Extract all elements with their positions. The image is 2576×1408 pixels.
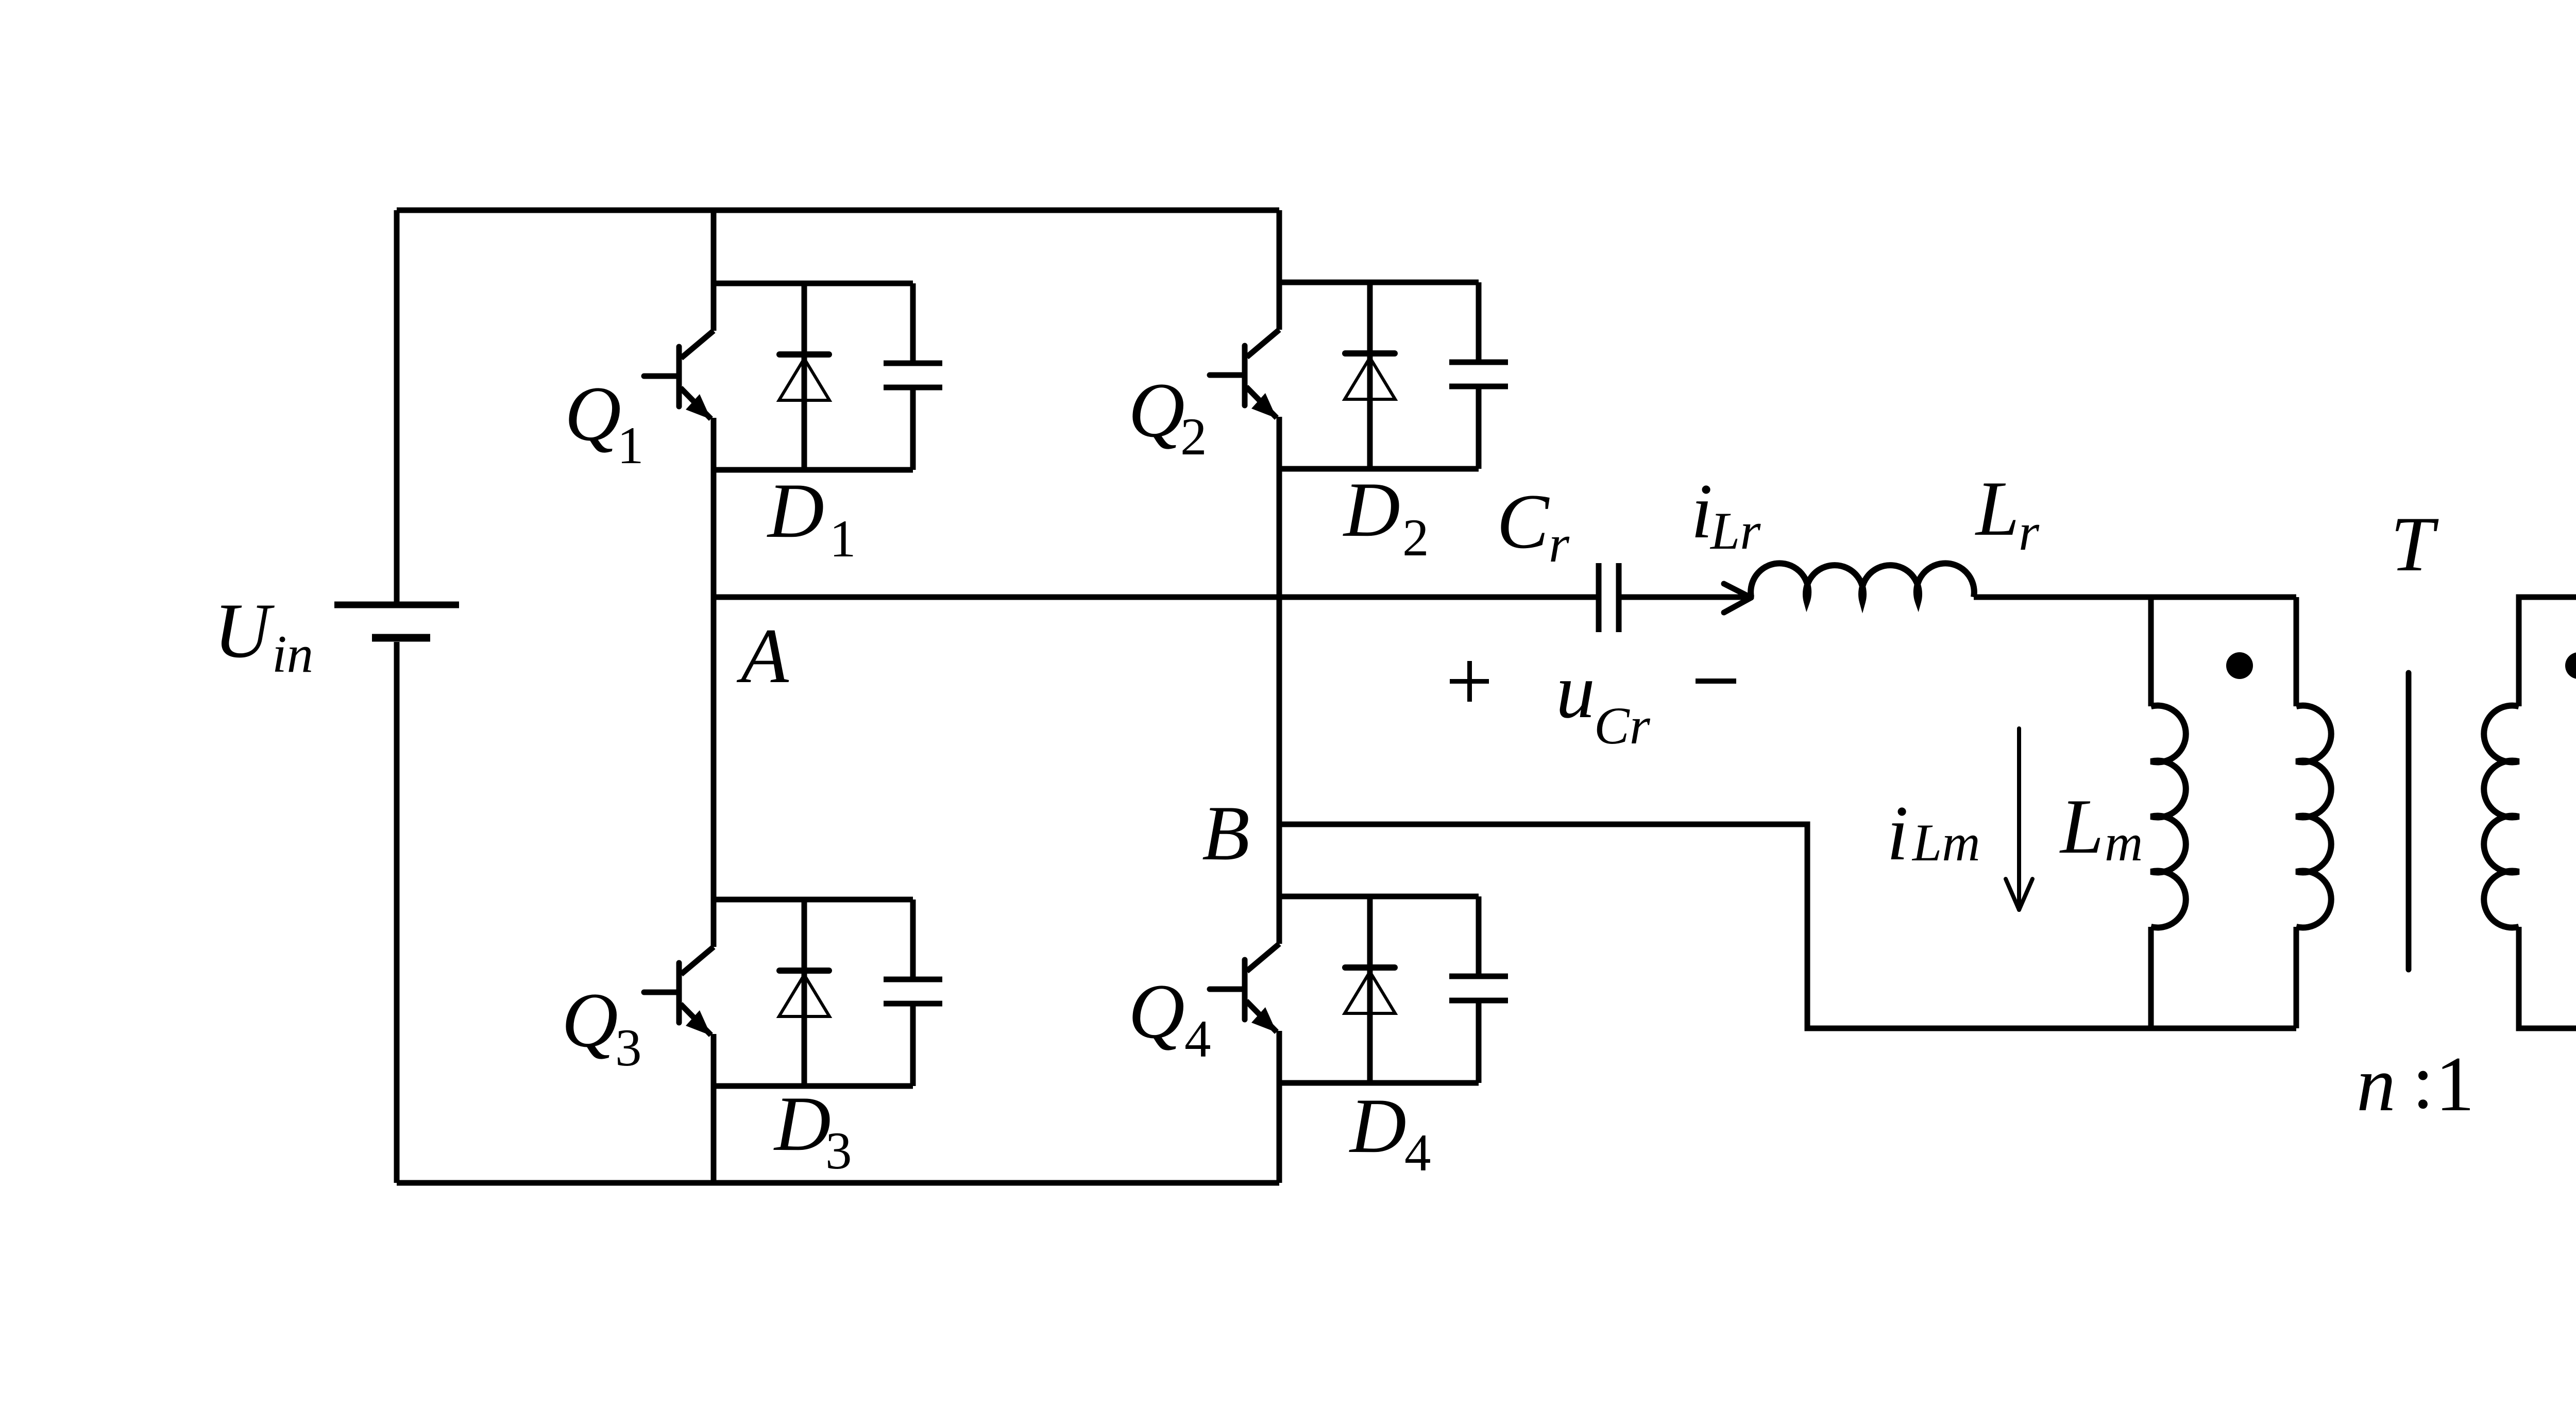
svg-text::: : <box>2412 1038 2434 1125</box>
svg-text:D: D <box>773 1080 831 1167</box>
svg-text:r: r <box>2019 503 2040 562</box>
svg-text:i: i <box>1887 790 1908 876</box>
label minus uCr <box>1696 678 1736 684</box>
switch cell Q1 <box>644 283 942 470</box>
svg-text:B: B <box>1202 790 1250 876</box>
svg-text:3: 3 <box>825 1122 852 1180</box>
svg-text:D: D <box>1349 1082 1406 1169</box>
wire left leg lower <box>711 1034 717 1183</box>
svg-text:1: 1 <box>829 510 856 568</box>
svg-text:4: 4 <box>1404 1124 1431 1182</box>
capacitor of Q3 <box>884 900 942 1086</box>
svg-text:in: in <box>272 625 313 684</box>
capacitor of Q1 <box>884 283 942 470</box>
svg-text:r: r <box>1549 515 1570 573</box>
transformer T secondary winding <box>2484 706 2519 928</box>
wire right leg lower <box>1277 1031 1282 1183</box>
wire secondary bottom <box>2519 927 2576 1028</box>
wire left leg upper <box>711 210 717 331</box>
transformer T primary winding <box>2296 706 2331 928</box>
arrow iLr <box>1724 584 1751 613</box>
svg-text:Q: Q <box>565 370 621 457</box>
inductor Lr <box>1751 563 1974 602</box>
dot primary polarity <box>2226 652 2253 679</box>
svg-text:n: n <box>2357 1041 2396 1127</box>
arrow iLm <box>2006 728 2032 910</box>
svg-text:i: i <box>1691 468 1713 554</box>
wire Lr to transformer <box>1974 595 2296 600</box>
wire primary stub bottom <box>2294 927 2299 1028</box>
wire right leg upper <box>1277 210 1282 330</box>
wire Lm stub top <box>2148 597 2154 706</box>
transistor Q2 <box>1210 330 1279 418</box>
svg-text:m: m <box>2105 813 2143 872</box>
svg-text:D: D <box>1343 466 1400 553</box>
transformer core <box>2406 673 2412 970</box>
svg-text:1: 1 <box>2435 1041 2475 1127</box>
dot secondary polarity <box>2565 652 2576 679</box>
svg-text:1: 1 <box>617 416 644 475</box>
svg-text:D: D <box>767 467 824 554</box>
svg-text:Lr: Lr <box>1709 502 1761 561</box>
svg-text:2: 2 <box>1180 408 1207 466</box>
transistor Q4 <box>1210 944 1279 1032</box>
wire left leg middle <box>711 418 717 947</box>
capacitor of Q2 <box>1449 282 1508 469</box>
node B wire <box>1279 824 2296 1028</box>
diode D4 <box>1345 896 1395 1083</box>
svg-text:Cr: Cr <box>1594 697 1651 755</box>
capacitor of Q4 <box>1449 896 1508 1083</box>
svg-text:Q: Q <box>562 977 618 1063</box>
wire primary top corner <box>2294 597 2299 706</box>
svg-text:4: 4 <box>1184 1010 1211 1068</box>
switch cell Q3 <box>644 900 942 1086</box>
wire right leg middle <box>1277 417 1282 944</box>
label plus uCr <box>1450 661 1489 702</box>
node A wire <box>714 595 1597 600</box>
svg-text:C: C <box>1497 478 1550 565</box>
wire top rail <box>397 208 1279 213</box>
wire Lm stub bottom <box>2148 927 2154 1028</box>
transistor Q1 <box>644 331 714 419</box>
svg-text:L: L <box>1975 465 2020 552</box>
wire bottom rail <box>397 1180 1279 1186</box>
svg-text:U: U <box>214 587 275 674</box>
svg-text:Q: Q <box>1128 968 1185 1055</box>
switch cell Q4 <box>1210 896 1508 1083</box>
diode D3 <box>779 900 829 1086</box>
svg-text:Q: Q <box>1128 367 1185 453</box>
svg-text:A: A <box>736 613 789 699</box>
svg-text:3: 3 <box>615 1019 642 1077</box>
wire secondary top <box>2519 597 2576 706</box>
svg-text:2: 2 <box>1402 508 1429 567</box>
diode D1 <box>779 283 829 470</box>
svg-text:u: u <box>1556 648 1595 734</box>
transistor Q3 <box>644 947 714 1035</box>
svg-text:L: L <box>2059 783 2104 870</box>
svg-text:T: T <box>2391 501 2439 587</box>
diode D2 <box>1345 282 1395 469</box>
svg-text:Lm: Lm <box>1911 813 1980 872</box>
battery Uin <box>334 210 459 1183</box>
inductor Lm <box>2151 706 2186 928</box>
capacitor Cr <box>1599 563 1751 632</box>
switch cell Q2 <box>1210 282 1508 469</box>
